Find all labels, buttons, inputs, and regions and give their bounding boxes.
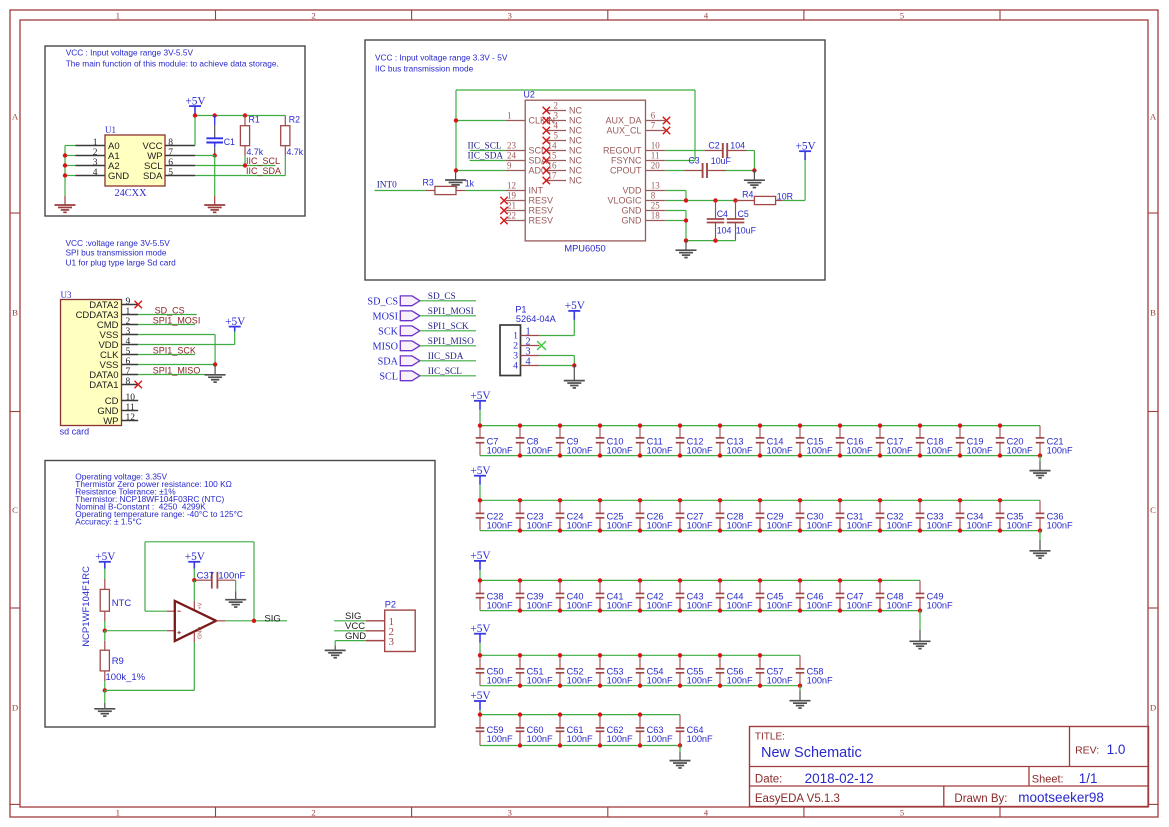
svg-text:P1: P1 bbox=[515, 304, 526, 314]
svg-text:A: A bbox=[12, 112, 19, 122]
svg-text:NC: NC bbox=[569, 136, 582, 146]
svg-text:100nF: 100nF bbox=[687, 734, 713, 744]
svg-text:SPI1_SCK: SPI1_SCK bbox=[428, 322, 469, 332]
svg-text:5: 5 bbox=[900, 807, 905, 817]
svg-text:SPI bus transmission mode: SPI bus transmission mode bbox=[66, 248, 167, 258]
svg-text:5: 5 bbox=[554, 131, 559, 141]
svg-text:100nF: 100nF bbox=[847, 446, 873, 456]
svg-text:NC: NC bbox=[569, 126, 582, 136]
svg-text:P2: P2 bbox=[385, 600, 396, 610]
svg-text:25: 25 bbox=[651, 201, 661, 211]
svg-text:100nF: 100nF bbox=[887, 521, 913, 531]
svg-text:12: 12 bbox=[126, 413, 136, 423]
svg-text:IIC_SDA: IIC_SDA bbox=[246, 166, 281, 176]
svg-text:4: 4 bbox=[126, 337, 131, 347]
svg-text:100nF: 100nF bbox=[567, 676, 593, 686]
svg-text:10uF: 10uF bbox=[711, 156, 732, 166]
svg-text:100nF: 100nF bbox=[487, 446, 513, 456]
svg-text:R3: R3 bbox=[423, 178, 434, 188]
svg-text:100nF: 100nF bbox=[1007, 446, 1033, 456]
svg-text:VCC :voltage range 3V-5.5V: VCC :voltage range 3V-5.5V bbox=[66, 238, 171, 248]
svg-text:100nF: 100nF bbox=[218, 571, 245, 582]
svg-text:5: 5 bbox=[900, 10, 905, 20]
svg-text:19: 19 bbox=[507, 191, 517, 201]
svg-text:100nF: 100nF bbox=[647, 601, 673, 611]
svg-text:WP: WP bbox=[103, 416, 118, 427]
svg-text:100nF: 100nF bbox=[567, 734, 593, 744]
svg-text:NC: NC bbox=[569, 146, 582, 156]
svg-text:100nF: 100nF bbox=[767, 676, 793, 686]
svg-text:100k_1%: 100k_1% bbox=[106, 672, 146, 683]
svg-text:RESV: RESV bbox=[529, 216, 554, 226]
svg-text:VDD: VDD bbox=[622, 186, 642, 196]
svg-text:100nF: 100nF bbox=[887, 601, 913, 611]
svg-text:REGOUT: REGOUT bbox=[603, 146, 642, 156]
svg-text:RESV: RESV bbox=[529, 196, 554, 206]
svg-text:6: 6 bbox=[168, 158, 173, 168]
svg-text:MPU6050: MPU6050 bbox=[564, 243, 605, 253]
svg-text:100nF: 100nF bbox=[527, 601, 553, 611]
svg-text:100nF: 100nF bbox=[767, 446, 793, 456]
svg-text:4.7k: 4.7k bbox=[287, 147, 304, 157]
svg-text:7: 7 bbox=[126, 367, 131, 377]
svg-text:4: 4 bbox=[554, 121, 559, 131]
svg-text:NC: NC bbox=[569, 116, 582, 126]
svg-text:23: 23 bbox=[507, 141, 517, 151]
svg-text:6: 6 bbox=[651, 111, 656, 121]
svg-text:100nF: 100nF bbox=[727, 676, 753, 686]
svg-text:100nF: 100nF bbox=[807, 676, 833, 686]
svg-text:100nF: 100nF bbox=[647, 521, 673, 531]
svg-text:4: 4 bbox=[513, 361, 518, 372]
svg-text:100nF: 100nF bbox=[487, 734, 513, 744]
svg-text:100nF: 100nF bbox=[527, 734, 553, 744]
svg-text:GND: GND bbox=[108, 171, 129, 182]
svg-text:10R: 10R bbox=[777, 191, 793, 201]
svg-text:16: 16 bbox=[548, 161, 558, 171]
svg-text:SPI1_MOSI: SPI1_MOSI bbox=[153, 316, 201, 326]
svg-text:Drawn By:: Drawn By: bbox=[954, 793, 1007, 805]
svg-text:Accuracy: ± 1.5°C: Accuracy: ± 1.5°C bbox=[75, 517, 141, 527]
svg-text:+V: +V bbox=[198, 602, 204, 609]
svg-text:1: 1 bbox=[126, 307, 131, 317]
svg-text:2: 2 bbox=[126, 317, 131, 327]
svg-text:SD_CS: SD_CS bbox=[367, 296, 398, 307]
svg-text:100nF: 100nF bbox=[1047, 521, 1073, 531]
svg-text:100nF: 100nF bbox=[927, 521, 953, 531]
svg-text:4: 4 bbox=[704, 10, 709, 20]
svg-text:U1 for plug type large Sd card: U1 for plug type large Sd card bbox=[66, 257, 177, 267]
svg-text:10: 10 bbox=[126, 393, 136, 403]
svg-text:mootseeker98: mootseeker98 bbox=[1018, 790, 1104, 805]
svg-text:C: C bbox=[1150, 505, 1156, 515]
svg-text:2: 2 bbox=[311, 10, 315, 20]
svg-text:4: 4 bbox=[93, 168, 98, 178]
svg-text:100nF: 100nF bbox=[927, 601, 953, 611]
svg-text:3: 3 bbox=[554, 111, 559, 121]
svg-text:5264-04A: 5264-04A bbox=[516, 314, 557, 324]
svg-text:New Schematic: New Schematic bbox=[761, 745, 862, 761]
svg-text:R2: R2 bbox=[289, 115, 300, 125]
svg-text:21: 21 bbox=[507, 201, 516, 211]
svg-text:A: A bbox=[1150, 112, 1157, 122]
svg-text:C2: C2 bbox=[708, 141, 719, 151]
svg-text:INT: INT bbox=[529, 186, 544, 196]
svg-text:100nF: 100nF bbox=[487, 676, 513, 686]
svg-text:AUX_DA: AUX_DA bbox=[605, 116, 641, 126]
svg-text:100nF: 100nF bbox=[687, 446, 713, 456]
svg-text:Date:: Date: bbox=[755, 774, 783, 786]
svg-text:NC: NC bbox=[569, 176, 582, 186]
svg-text:100nF: 100nF bbox=[647, 734, 673, 744]
svg-text:100nF: 100nF bbox=[767, 521, 793, 531]
svg-text:11: 11 bbox=[126, 403, 135, 413]
svg-text:SPI1_MOSI: SPI1_MOSI bbox=[428, 307, 474, 317]
svg-text:100nF: 100nF bbox=[687, 676, 713, 686]
svg-text:100nF: 100nF bbox=[607, 734, 633, 744]
svg-text:C37: C37 bbox=[197, 571, 214, 582]
svg-text:2: 2 bbox=[93, 148, 98, 158]
svg-text:1: 1 bbox=[116, 807, 120, 817]
svg-text:IIC_SCL: IIC_SCL bbox=[246, 156, 280, 166]
svg-text:B: B bbox=[1150, 307, 1156, 317]
svg-text:FSYNC: FSYNC bbox=[611, 156, 642, 166]
svg-text:IIC_SCL: IIC_SCL bbox=[428, 367, 462, 377]
svg-text:1: 1 bbox=[116, 10, 120, 20]
svg-text:U1: U1 bbox=[105, 125, 116, 135]
svg-text:100nF: 100nF bbox=[847, 601, 873, 611]
svg-text:SDA: SDA bbox=[378, 356, 399, 367]
svg-text:NC: NC bbox=[569, 106, 582, 116]
svg-text:C3: C3 bbox=[688, 156, 699, 166]
svg-text:NCP1WF104F1RC: NCP1WF104F1RC bbox=[81, 566, 92, 647]
svg-text:3: 3 bbox=[507, 807, 512, 817]
svg-text:3: 3 bbox=[93, 158, 98, 168]
svg-text:IIC_SDA: IIC_SDA bbox=[428, 352, 464, 362]
svg-text:5: 5 bbox=[126, 347, 131, 357]
svg-text:IIC_SCL: IIC_SCL bbox=[468, 141, 502, 151]
svg-text:100nF: 100nF bbox=[807, 446, 833, 456]
svg-text:2018-02-12: 2018-02-12 bbox=[805, 771, 874, 786]
svg-text:8: 8 bbox=[651, 191, 656, 201]
svg-text:8: 8 bbox=[126, 377, 131, 387]
svg-text:100nF: 100nF bbox=[887, 446, 913, 456]
svg-text:100nF: 100nF bbox=[767, 601, 793, 611]
svg-text:100nF: 100nF bbox=[687, 601, 713, 611]
svg-text:The main function of this modu: The main function of this module: to ach… bbox=[66, 59, 279, 69]
svg-text:4: 4 bbox=[704, 807, 709, 817]
svg-text:100nF: 100nF bbox=[967, 521, 993, 531]
svg-text:3: 3 bbox=[507, 10, 512, 20]
svg-text:100nF: 100nF bbox=[967, 446, 993, 456]
svg-text:100nF: 100nF bbox=[647, 676, 673, 686]
svg-text:C: C bbox=[12, 505, 18, 515]
svg-text:100nF: 100nF bbox=[1007, 521, 1033, 531]
svg-text:10: 10 bbox=[651, 141, 661, 151]
svg-text:sd card: sd card bbox=[60, 426, 90, 436]
svg-text:100nF: 100nF bbox=[687, 521, 713, 531]
svg-text:1k: 1k bbox=[465, 179, 475, 189]
svg-text:100nF: 100nF bbox=[727, 521, 753, 531]
svg-text:2: 2 bbox=[554, 101, 559, 111]
svg-text:17: 17 bbox=[548, 171, 558, 181]
svg-text:104: 104 bbox=[730, 141, 745, 151]
svg-text:100nF: 100nF bbox=[647, 446, 673, 456]
svg-text:100nF: 100nF bbox=[527, 676, 553, 686]
svg-text:100nF: 100nF bbox=[567, 446, 593, 456]
svg-text:18: 18 bbox=[651, 211, 661, 221]
svg-text:EasyEDA V5.1.3: EasyEDA V5.1.3 bbox=[755, 793, 840, 805]
svg-text:13: 13 bbox=[651, 181, 661, 191]
svg-text:14: 14 bbox=[548, 141, 558, 151]
svg-text:SPI1_MISO: SPI1_MISO bbox=[428, 337, 474, 347]
svg-text:NC: NC bbox=[569, 156, 582, 166]
svg-text:20: 20 bbox=[651, 161, 661, 171]
svg-text:4: 4 bbox=[526, 356, 531, 367]
svg-text:SCL: SCL bbox=[379, 371, 398, 382]
svg-text:NC: NC bbox=[569, 166, 582, 176]
svg-text:100nF: 100nF bbox=[527, 446, 553, 456]
svg-text:MISO: MISO bbox=[373, 341, 398, 352]
svg-text:104: 104 bbox=[717, 225, 732, 235]
svg-text:7: 7 bbox=[168, 148, 173, 158]
svg-text:7: 7 bbox=[651, 121, 656, 131]
svg-text:VCC : Input voltage range 3.3V: VCC : Input voltage range 3.3V - 5V bbox=[375, 52, 508, 62]
svg-text:22: 22 bbox=[507, 211, 516, 221]
svg-text:SIG: SIG bbox=[264, 613, 280, 624]
svg-text:C5: C5 bbox=[738, 209, 749, 219]
svg-text:9: 9 bbox=[507, 161, 512, 171]
svg-text:AUX_CL: AUX_CL bbox=[606, 126, 641, 136]
svg-text:24: 24 bbox=[507, 151, 517, 161]
svg-text:9: 9 bbox=[126, 297, 131, 307]
svg-text:C4: C4 bbox=[717, 209, 728, 219]
svg-text:6: 6 bbox=[126, 357, 131, 367]
svg-text:100nF: 100nF bbox=[727, 446, 753, 456]
svg-text:100nF: 100nF bbox=[607, 446, 633, 456]
svg-text:VLOGIC: VLOGIC bbox=[607, 196, 642, 206]
svg-text:D: D bbox=[12, 703, 18, 713]
svg-text:B: B bbox=[12, 307, 18, 317]
svg-text:100nF: 100nF bbox=[607, 676, 633, 686]
svg-text:11: 11 bbox=[651, 151, 660, 161]
svg-text:C1: C1 bbox=[224, 137, 235, 147]
svg-text:SCK: SCK bbox=[378, 326, 398, 337]
svg-text:GND: GND bbox=[622, 216, 643, 226]
svg-text:10uF: 10uF bbox=[736, 225, 757, 235]
svg-text:100nF: 100nF bbox=[847, 521, 873, 531]
svg-text:1/1: 1/1 bbox=[1079, 771, 1098, 786]
svg-text:8: 8 bbox=[168, 138, 173, 148]
svg-text:U2: U2 bbox=[524, 90, 535, 100]
svg-text:100nF: 100nF bbox=[487, 521, 513, 531]
svg-text:GND: GND bbox=[198, 627, 204, 639]
svg-text:2: 2 bbox=[311, 807, 315, 817]
svg-text:R1: R1 bbox=[249, 115, 260, 125]
svg-text:INT0: INT0 bbox=[377, 181, 397, 191]
svg-text:12: 12 bbox=[507, 181, 516, 191]
svg-text:100nF: 100nF bbox=[1047, 446, 1073, 456]
svg-text:CPOUT: CPOUT bbox=[610, 166, 642, 176]
svg-text:REV:: REV: bbox=[1075, 745, 1099, 757]
svg-text:1: 1 bbox=[507, 111, 512, 121]
svg-text:VCC : Input voltage range 3V-5: VCC : Input voltage range 3V-5.5V bbox=[66, 48, 194, 58]
svg-text:GND: GND bbox=[622, 206, 643, 216]
svg-text:D: D bbox=[1150, 703, 1156, 713]
svg-text:SD_CS: SD_CS bbox=[428, 292, 456, 302]
svg-text:TITLE:: TITLE: bbox=[755, 731, 785, 742]
svg-text:NTC: NTC bbox=[112, 598, 132, 609]
svg-text:100nF: 100nF bbox=[607, 521, 633, 531]
svg-text:SDA: SDA bbox=[529, 156, 548, 166]
svg-text:100nF: 100nF bbox=[807, 601, 833, 611]
svg-text:SDA: SDA bbox=[143, 171, 163, 182]
svg-text:IIC_SDA: IIC_SDA bbox=[468, 151, 504, 161]
svg-text:U3: U3 bbox=[61, 290, 72, 300]
svg-text:3: 3 bbox=[389, 636, 395, 648]
svg-text:100nF: 100nF bbox=[607, 601, 633, 611]
svg-text:R4: R4 bbox=[742, 189, 753, 199]
svg-text:Sheet:: Sheet: bbox=[1032, 774, 1064, 786]
svg-text:RESV: RESV bbox=[529, 206, 554, 216]
svg-text:3: 3 bbox=[126, 327, 131, 337]
svg-text:SD_CS: SD_CS bbox=[155, 306, 185, 316]
svg-text:MOSI: MOSI bbox=[373, 311, 399, 322]
svg-text:100nF: 100nF bbox=[927, 446, 953, 456]
svg-text:100nF: 100nF bbox=[567, 521, 593, 531]
svg-text:100nF: 100nF bbox=[807, 521, 833, 531]
svg-text:5: 5 bbox=[168, 168, 173, 178]
svg-text:15: 15 bbox=[548, 151, 558, 161]
svg-text:DATA1: DATA1 bbox=[89, 380, 118, 391]
svg-text:1: 1 bbox=[93, 138, 98, 148]
svg-text:24CXX: 24CXX bbox=[114, 188, 147, 199]
svg-text:1.0: 1.0 bbox=[1107, 742, 1126, 757]
svg-text:100nF: 100nF bbox=[727, 601, 753, 611]
svg-text:100nF: 100nF bbox=[527, 521, 553, 531]
svg-text:IIC bus transmission mode: IIC bus transmission mode bbox=[375, 63, 474, 73]
svg-text:100nF: 100nF bbox=[567, 601, 593, 611]
svg-text:100nF: 100nF bbox=[487, 601, 513, 611]
svg-text:SPI1_MISO: SPI1_MISO bbox=[153, 366, 201, 376]
svg-text:SPI1_SCK: SPI1_SCK bbox=[153, 346, 196, 356]
svg-text:R9: R9 bbox=[112, 656, 124, 667]
